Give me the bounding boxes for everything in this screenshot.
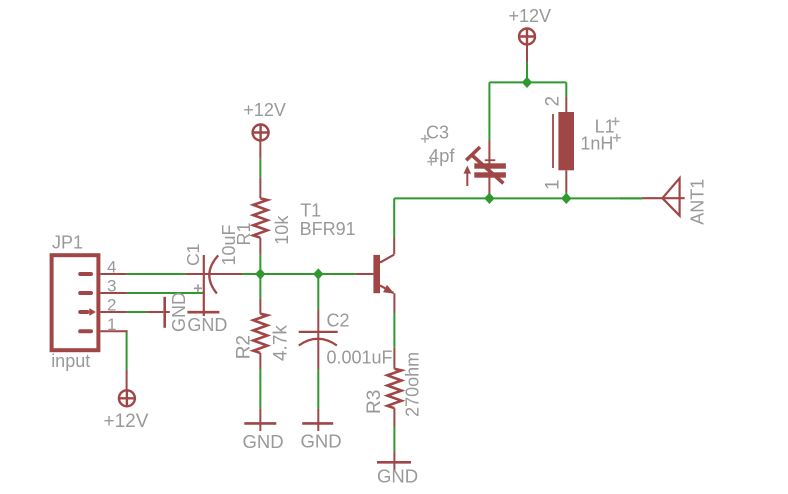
label 1nH origin cross [613, 134, 621, 142]
svg-text:270ohm: 270ohm [403, 352, 423, 417]
wire net V+ top rail [489, 81, 566, 83]
wire net JP1 pin1 down [126, 330, 128, 370]
antenna ANT1 [642, 178, 685, 216]
svg-text:R1: R1 [234, 222, 254, 245]
wire net node to R2 [259, 274, 261, 299]
label C3 origin cross [421, 135, 429, 143]
wire net R2 bottom [259, 369, 261, 409]
wire net JP1 pin3 to GND [127, 292, 204, 294]
node junction out/C3 [484, 193, 494, 204]
ground GND for C1 [187, 311, 219, 314]
svg-text:input: input [51, 351, 90, 371]
svg-text:+12V: +12V [243, 100, 286, 120]
svg-text:BFR91: BFR91 [300, 219, 356, 239]
svg-text:ANT1: ANT1 [688, 179, 708, 225]
wire net ANT feed green [620, 197, 642, 199]
svg-text:R2: R2 [234, 335, 255, 359]
svg-text:1: 1 [107, 315, 116, 334]
svg-text:2: 2 [107, 296, 116, 315]
wire net R3 bottom [393, 427, 395, 452]
power +12V symbol top [519, 29, 535, 63]
resistor R3 [387, 348, 401, 427]
svg-text:4: 4 [107, 258, 116, 277]
svg-text:0.001uF: 0.001uF [327, 347, 393, 367]
wire net OUT collector riser [393, 198, 395, 237]
resistor R2 [253, 299, 267, 369]
svg-text:GND: GND [187, 315, 227, 335]
svg-text:10k: 10k [272, 215, 292, 245]
wire net JP1 pin2 to GND [127, 311, 147, 313]
wire net V+ top: supply stem [526, 62, 528, 82]
svg-text:GND: GND [169, 292, 189, 332]
svg-text:JP1: JP1 [52, 232, 83, 252]
svg-text:4.7k: 4.7k [270, 325, 291, 361]
wire net node to C2 [317, 274, 319, 310]
svg-text:C1: C1 [183, 244, 203, 266]
svg-text:C3: C3 [426, 122, 449, 142]
ground GND for C2 [302, 409, 333, 431]
capacitor C3 (trimmer) [464, 141, 506, 195]
wire net V+ to L1 [565, 82, 567, 97]
svg-text:GND: GND [377, 466, 418, 487]
svg-text:C2: C2 [327, 310, 350, 330]
node junction base/C2 [313, 268, 323, 279]
transistor T1 [356, 238, 395, 314]
svg-text:GND: GND [301, 431, 342, 452]
capacitor C1 [186, 255, 242, 316]
svg-text:4pf: 4pf [429, 145, 456, 166]
wire net base horizontal [242, 273, 356, 275]
svg-text:GND: GND [243, 431, 284, 452]
svg-text:1: 1 [543, 179, 564, 190]
label L1 origin cross [612, 117, 620, 125]
capacitor C2 [299, 310, 338, 369]
wire net V+ to C3 [488, 82, 490, 140]
node junction rail/supply [522, 77, 532, 88]
wire net emitter to R3 [393, 313, 395, 348]
inductor L1 [553, 97, 574, 192]
label C1 plus [194, 284, 202, 292]
svg-text:+12V: +12V [509, 6, 552, 26]
power +12V symbol mid (R1 top) [253, 125, 269, 141]
connector JP1 [52, 255, 128, 350]
svg-text:2: 2 [543, 96, 564, 107]
power +12V symbol bottom (JP1 pin1) [119, 370, 135, 406]
node junction out/L1 [561, 193, 571, 204]
svg-text:1nH: 1nH [580, 134, 613, 154]
wire net OUT main horizontal [394, 197, 642, 199]
wire net L1 bottom [565, 192, 567, 198]
wire net C3 bottom [488, 193, 490, 198]
node junction base/R1/R2 [255, 268, 265, 279]
wire net R1 bottom to node [259, 255, 261, 274]
svg-text:R3: R3 [364, 390, 385, 414]
svg-text:3: 3 [107, 277, 116, 296]
svg-text:+12V: +12V [104, 411, 149, 432]
wire net R1 top [259, 159, 261, 178]
wire net C2 bottom [317, 369, 319, 409]
ground GND for R3 [377, 452, 411, 471]
ground GND for R2 [244, 409, 276, 431]
ground GND rotated (JP1 pin2) [146, 297, 169, 328]
label 4pf origin cross [427, 158, 435, 166]
resistor R1 [253, 141, 267, 255]
wire net C1 left to JP1 pin4 [127, 273, 186, 275]
svg-text:T1: T1 [300, 200, 321, 220]
